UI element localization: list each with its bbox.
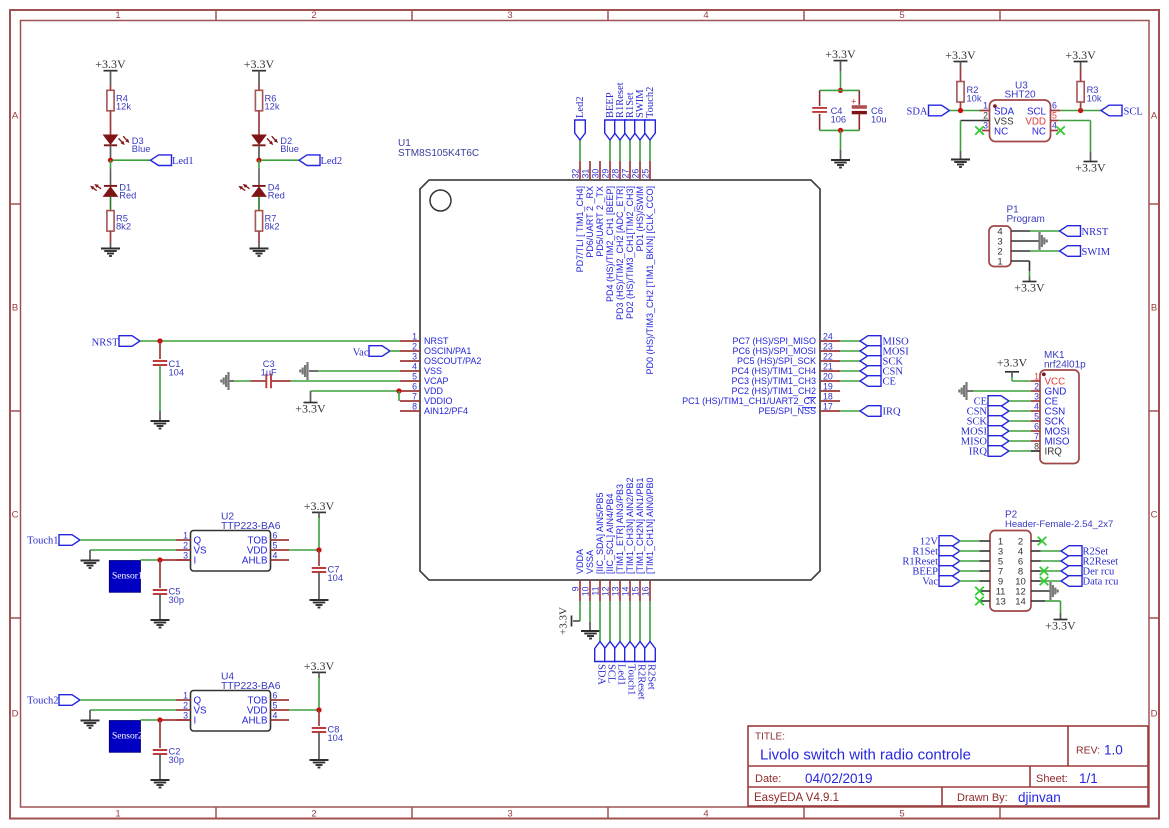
MK1 pin 5 SCK [1031, 411, 1065, 427]
wire [258, 111, 260, 135]
svg-text:13: 13 [611, 586, 621, 596]
svg-text:AHLB: AHLB [242, 715, 268, 726]
wire to Led1 flag [113, 159, 151, 161]
U1 pin 27 PD2 (HS)/TIM3_CH1[TIM2_CH3] [621, 161, 636, 319]
MK1 pin 1 VCC [1031, 371, 1065, 387]
svg-text:Header-Female-2.54_2x7: Header-Female-2.54_2x7 [1005, 519, 1113, 530]
ground (C1) [151, 411, 170, 429]
P1 pin 3 wire to ground [1011, 240, 1040, 242]
U1 pin 3 OSCOUT/PA2 [400, 352, 481, 367]
wire (U3 VDD to +3.3V) [1058, 121, 1091, 162]
svg-text:STM8S105K4T6C: STM8S105K4T6C [398, 148, 479, 159]
svg-text:+3.3V: +3.3V [1065, 48, 1096, 62]
svg-text:PC4 (HS)/TIM1_CH4: PC4 (HS)/TIM1_CH4 [731, 366, 816, 376]
net flag Data rcu (P2) [1061, 576, 1119, 588]
P2 pin 8 wire [1031, 570, 1061, 572]
U1 pin 1 NRST [400, 332, 449, 347]
svg-text:2: 2 [311, 809, 316, 820]
U1 pin 31 PD6/UART 2 _RX [581, 161, 596, 258]
svg-text:Red: Red [119, 190, 136, 200]
svg-text:5: 5 [273, 540, 278, 550]
svg-text:VSSA: VSSA [585, 550, 595, 574]
svg-text:SHT20: SHT20 [1005, 90, 1037, 101]
wire (U4 VS to ground) [90, 710, 176, 720]
wire [230, 380, 251, 382]
svg-text:[TIM1_CH1N] AIN0/PB0: [TIM1_CH1N] AIN0/PB0 [645, 477, 655, 574]
power +3.3V (R2) [945, 48, 976, 67]
U1 pin 15 [TIM1_CH2N] AIN1/PB1 [631, 477, 646, 601]
svg-text:4: 4 [703, 10, 708, 21]
wire [840, 71, 842, 90]
wire NRST [140, 340, 400, 342]
node C4/C6 top rail [838, 88, 843, 93]
sensor pad Sensor2 [109, 721, 142, 753]
wire [1009, 450, 1031, 452]
svg-text:2: 2 [183, 700, 188, 710]
wire (U1 pin 6 VDD to +3.3V) [311, 390, 401, 392]
svg-text:104: 104 [328, 733, 344, 743]
svg-text:+3.3V: +3.3V [244, 57, 275, 71]
wire [258, 231, 260, 243]
power +3.3V (R3) [1065, 48, 1096, 82]
svg-text:SCL: SCL [1124, 106, 1143, 117]
svg-text:31: 31 [581, 169, 591, 179]
power +3.3V (P2) [1054, 619, 1068, 621]
sensor pad Sensor1 [109, 561, 142, 593]
svg-text:Touch2: Touch2 [27, 696, 58, 707]
U1 pin 18 PC1 (HS)/TIM1_CH1/UART2_CK [682, 392, 840, 407]
U1 pin 4 VSS [400, 362, 442, 377]
power +3.3V (U3 VDD, below) [1084, 161, 1098, 163]
svg-text:AHLB: AHLB [242, 555, 268, 566]
net flag SDA [595, 642, 607, 686]
U4 pin 3 I [176, 710, 196, 726]
svg-text:Blue: Blue [132, 144, 151, 154]
U1 pin 22 PC5 (HS)/SPI_SCK [737, 352, 840, 367]
svg-text:21: 21 [823, 362, 833, 372]
svg-text:PD5/UART 2 _TX: PD5/UART 2 _TX [595, 186, 605, 257]
U1 pin 23 PC6 (HS)/SPI_MOSI [732, 342, 840, 357]
svg-text:1.0: 1.0 [1104, 743, 1123, 758]
wire (U3 VSS to ground) [961, 121, 982, 152]
wire [1009, 410, 1031, 412]
wire (LED column 1 top lead) [110, 85, 112, 90]
node Led1 junction [108, 158, 113, 163]
wire (U1 bottom pin to R2Set flag) [649, 601, 651, 642]
node VDD junction [396, 388, 401, 393]
svg-text:106: 106 [831, 114, 847, 124]
wire [318, 572, 320, 600]
U3 pin 5 VDD [1025, 111, 1058, 128]
svg-text:+: + [851, 96, 856, 106]
svg-text:1: 1 [997, 257, 1002, 268]
svg-text:NRST: NRST [92, 337, 119, 348]
U1 pin 12 [IIC_SCL] AIN4/PB4 [601, 493, 616, 601]
wire SDA [950, 110, 980, 112]
svg-text:+3.3V: +3.3V [558, 607, 570, 635]
svg-text:I: I [194, 555, 197, 566]
LED D1 Red [90, 182, 136, 200]
svg-text:104: 104 [328, 573, 344, 583]
power +3.3V (C4/C6) [825, 47, 856, 71]
P2 pin 7 wire [959, 570, 990, 572]
wire [110, 145, 112, 160]
MK1 pin 8 IRQ [1031, 441, 1062, 457]
svg-text:Program: Program [1007, 214, 1045, 225]
wire [1009, 440, 1031, 442]
U1 pin 26 PD1 (HS)/SWIM [631, 161, 646, 252]
ground (P2 pin 12, arrow style) [1049, 582, 1051, 600]
svg-text:6: 6 [273, 530, 278, 540]
svg-text:+3.3V: +3.3V [825, 47, 856, 61]
svg-text:VDD: VDD [424, 386, 444, 396]
svg-text:8k2: 8k2 [265, 221, 280, 231]
svg-text:Touch2: Touch2 [645, 87, 656, 118]
svg-text:30p: 30p [169, 595, 185, 605]
svg-text:+3.3V: +3.3V [304, 499, 335, 513]
U1 pin 21 PC4 (HS)/TIM1_CH4 [731, 362, 840, 377]
net flag R1Set (P2) [912, 546, 960, 558]
svg-text:8: 8 [1034, 441, 1039, 451]
power +3.3V (U1 pin 9, rotated) [558, 607, 572, 635]
U3 pin 6 SCL [1027, 101, 1060, 118]
capacitor C7 104 [312, 550, 343, 583]
wire (U1 pin 23 to MOSI flag) [840, 350, 860, 352]
no-connect X (P2 pin 11) [975, 587, 984, 596]
U1 pin 11 [IIC_SDA] AIN5/PB5 [591, 492, 606, 601]
net flag SCL [1101, 105, 1143, 117]
wire (U1 top pin to Led2 flag) [579, 140, 581, 161]
wire to Led2 flag [261, 159, 299, 161]
U1 pin 10 VSSA [581, 550, 596, 601]
svg-text:A: A [1151, 110, 1158, 121]
net flag Led1 [615, 642, 627, 686]
svg-text:5: 5 [1052, 111, 1057, 121]
net flag NRST (P1) [1060, 226, 1109, 238]
svg-text:22: 22 [823, 352, 833, 362]
wire (U1 bottom pin to Led1 flag) [619, 601, 621, 642]
svg-text:Led1: Led1 [616, 664, 627, 686]
U1 pin 7 VDDIO [400, 392, 453, 407]
svg-text:2: 2 [1034, 381, 1039, 391]
node Led2 junction [256, 158, 261, 163]
net flag CE (MK1) [974, 396, 1009, 408]
op-amp U1 STM8S105K4T6C MCU body [398, 138, 820, 580]
net flag R2Reset [635, 642, 647, 700]
U1 pin 17 NSS overline [802, 407, 816, 409]
svg-text:+3.3V: +3.3V [1045, 619, 1076, 633]
wire [110, 231, 112, 243]
svg-text:27: 27 [621, 169, 631, 179]
U1 pin 6 VDD [400, 382, 444, 397]
svg-text:10: 10 [581, 586, 591, 596]
wire (U1 pin 22 to SCK flag) [840, 360, 860, 362]
svg-text:Data rcu: Data rcu [1083, 577, 1120, 588]
wire (U1 bottom pin to R2Reset flag) [639, 601, 641, 642]
wire [110, 196, 112, 210]
capacitor C1 104 [153, 341, 184, 378]
net flag MISO [860, 336, 909, 348]
svg-text:SDA: SDA [906, 106, 927, 117]
svg-text:+3.3V: +3.3V [304, 659, 335, 673]
svg-text:I: I [194, 715, 197, 726]
svg-text:Led2: Led2 [575, 96, 586, 118]
wire [840, 130, 842, 150]
U3 pin 2 VSS [982, 111, 1015, 128]
wire (U1 bottom pin to Touch1 flag) [629, 601, 631, 642]
net flag R2Set [645, 642, 657, 690]
svg-text:Led2: Led2 [321, 156, 343, 167]
svg-text:8k2: 8k2 [116, 221, 131, 231]
MK1 pin 6 MOSI [1031, 421, 1070, 437]
svg-text:11: 11 [591, 586, 601, 595]
U3 pin 3 NC [982, 121, 1008, 138]
wire [258, 145, 260, 160]
svg-text:9: 9 [571, 586, 581, 591]
wire (bottom rail) [820, 129, 860, 131]
svg-text:[TIM1_CH3N] AIN2/PB2: [TIM1_CH3N] AIN2/PB2 [625, 477, 635, 574]
chip U3 SHT20 [990, 81, 1051, 142]
svg-text:[IIC_SCL] AIN4/PB4: [IIC_SCL] AIN4/PB4 [605, 493, 615, 574]
net flag R1Reset (P2) [902, 556, 960, 568]
svg-text:Blue: Blue [280, 144, 299, 154]
wire (U1 top pin to SWIM flag) [639, 140, 641, 161]
svg-text:23: 23 [823, 342, 833, 352]
capacitor C5 30p [153, 560, 184, 605]
capacitor C6 10u (polarized) [851, 90, 886, 130]
svg-text:4: 4 [273, 550, 278, 560]
chip U2 TTP223-BA6 [191, 512, 281, 572]
node U4 pin3 junction [157, 717, 162, 722]
svg-text:17: 17 [823, 402, 833, 412]
svg-text:6: 6 [1034, 421, 1039, 431]
U4 pin 4 AHLB [242, 710, 289, 726]
svg-text:2: 2 [311, 10, 316, 21]
resistor R2 10k [957, 67, 982, 111]
node U2 VDD junction [316, 547, 321, 552]
svg-text:IRQ: IRQ [969, 447, 988, 458]
svg-text:10k: 10k [967, 93, 982, 103]
connector P1 Program [989, 205, 1045, 268]
ground (P1 pin 3, arrow style) [1038, 232, 1040, 250]
svg-text:26: 26 [631, 169, 641, 179]
net flag SCL [605, 642, 617, 684]
svg-text:TITLE:: TITLE: [755, 732, 785, 743]
svg-text:AIN12/PF4: AIN12/PF4 [424, 406, 468, 416]
svg-text:PD7/TLI [ TIM1_CH4]: PD7/TLI [ TIM1_CH4] [575, 186, 585, 272]
svg-text:SCL: SCL [606, 664, 617, 683]
svg-text:Sheet:: Sheet: [1036, 773, 1068, 785]
svg-text:PC2 (HS)/TIM1_CH2: PC2 (HS)/TIM1_CH2 [731, 386, 816, 396]
svg-text:5: 5 [899, 10, 904, 21]
svg-text:16: 16 [641, 586, 651, 596]
svg-text:+3.3V: +3.3V [295, 402, 326, 416]
svg-text:18: 18 [823, 392, 833, 402]
svg-text:3: 3 [507, 10, 512, 21]
no-connect X (P2 pin 2) [1038, 537, 1047, 546]
P2 pin 12 wire to ground [1031, 590, 1051, 592]
wire [140, 719, 190, 721]
U3 pin 4 NC [1032, 121, 1058, 138]
svg-text:PC7 (HS)/SPI_MISO: PC7 (HS)/SPI_MISO [732, 336, 816, 346]
svg-text:1uF: 1uF [261, 368, 277, 378]
net flag MOSI [860, 346, 909, 358]
net flag SDA [906, 105, 949, 117]
chip U4 TTP223-BA6 [191, 672, 281, 732]
svg-text:PC6 (HS)/SPI_MOSI: PC6 (HS)/SPI_MOSI [732, 346, 816, 356]
ground (LED column 1) [101, 243, 120, 256]
svg-text:B: B [1151, 302, 1157, 313]
svg-text:3: 3 [412, 352, 417, 362]
P2 pin 11 stub [980, 590, 991, 592]
no-connect X (P2 pin 13) [975, 597, 984, 606]
LED D2 Blue [252, 135, 299, 154]
svg-text:6: 6 [273, 690, 278, 700]
svg-text:5: 5 [273, 700, 278, 710]
svg-text:Vac: Vac [922, 577, 938, 588]
svg-text:15: 15 [631, 586, 641, 596]
svg-text:1/1: 1/1 [1079, 771, 1098, 786]
U1 pin 8 AIN12/PF4 [400, 402, 468, 417]
svg-text:NC: NC [1032, 127, 1046, 138]
wire [140, 559, 190, 561]
svg-text:1: 1 [183, 690, 188, 700]
svg-text:djinvan: djinvan [1018, 790, 1061, 805]
ground (LED column 2) [250, 243, 269, 256]
P1 pin 1 wire to +3.3V [1011, 261, 1030, 282]
resistor R6 12k [255, 90, 279, 111]
ground (U2 VS) [81, 560, 100, 562]
net flag Led1 [151, 155, 194, 167]
wire [159, 754, 161, 780]
svg-text:C: C [1151, 509, 1158, 520]
wire (U1 pin 24 to MISO flag) [840, 340, 860, 342]
wire [80, 699, 176, 701]
node U4 VDD junction [316, 707, 321, 712]
wire SCL [1060, 110, 1101, 112]
net flag BEEP (P2) [912, 566, 960, 578]
U4 pin 6 TOB [248, 690, 289, 706]
P2 pin 4 wire [1031, 550, 1061, 552]
svg-text:32: 32 [571, 169, 581, 179]
svg-text:10u: 10u [871, 114, 887, 124]
svg-text:30p: 30p [169, 755, 185, 765]
svg-text:EasyEDA V4.9.1: EasyEDA V4.9.1 [754, 792, 839, 804]
svg-text:A: A [12, 110, 19, 121]
resistor R5 8k2 [107, 211, 131, 232]
ground (C5) [151, 619, 170, 621]
net flag Led2 [299, 155, 342, 167]
U1 pin 16 [TIM1_CH1N] AIN0/PB0 [641, 477, 656, 601]
capacitor C2 30p [153, 720, 184, 765]
svg-text:VDDA: VDDA [575, 549, 585, 574]
U4 pin 2 VS [176, 700, 207, 716]
P2 pin 2 stub [1031, 540, 1041, 542]
no-connect X (P2 pin 8) [1040, 567, 1049, 576]
svg-text:8: 8 [412, 402, 417, 412]
MK1 pin 4 CSN [1031, 401, 1065, 417]
connector MK1 nrf24l01p [1040, 350, 1086, 464]
LED D3 Blue [104, 135, 151, 154]
LED D4 Red [239, 182, 285, 200]
svg-text:12k: 12k [265, 101, 280, 111]
wire [258, 196, 260, 210]
svg-text:[IIC_SDA] AIN5/PB5: [IIC_SDA] AIN5/PB5 [595, 492, 605, 574]
svg-text:NRST: NRST [424, 336, 449, 346]
U1 pin 25 PD0 (HS)/TIM3_CH2 [TIM1_BKIN] [CLK_CCO] [641, 161, 656, 375]
svg-text:1: 1 [115, 10, 120, 21]
svg-text:7: 7 [412, 392, 417, 402]
P2 pin 3 wire [959, 550, 990, 552]
svg-text:VCAP: VCAP [424, 376, 449, 386]
wire (U1 pin 21 to CSN flag) [840, 370, 860, 372]
net flag MOSI (MK1) [961, 426, 1009, 438]
svg-text:B: B [12, 302, 18, 313]
svg-text:+3.3V: +3.3V [95, 57, 126, 71]
svg-text:PC3 (HS)/TIM1_CH3: PC3 (HS)/TIM1_CH3 [731, 376, 816, 386]
svg-text:Touch1: Touch1 [626, 664, 637, 695]
svg-text:REV:: REV: [1076, 745, 1100, 757]
power +3.3V (U2) [304, 499, 335, 518]
svg-text:1: 1 [1034, 371, 1039, 381]
power +3.3V (P1) [1023, 281, 1037, 283]
P1 pin 2 wire to SWIM [1011, 250, 1060, 252]
ground (C8) [310, 759, 329, 761]
svg-text:28: 28 [611, 169, 621, 179]
svg-text:4: 4 [1052, 121, 1057, 131]
power +3.3V (U1 pin 6) [295, 391, 326, 416]
wire (U1 pin 9 VDDA to +3.3V) [573, 601, 580, 621]
wire (U1 pin 10 VSSA to ground) [589, 601, 591, 622]
U1 pin 5 VCAP [400, 372, 449, 387]
wire [289, 518, 319, 550]
no-connect X (U3 pin 4) [1056, 126, 1065, 135]
svg-text:PD6/UART 2 _RX: PD6/UART 2 _RX [585, 186, 595, 258]
svg-text:20: 20 [823, 372, 833, 382]
net flag Touch1 [27, 535, 80, 547]
P2 pin 9 wire [959, 580, 990, 582]
svg-text:4: 4 [412, 362, 417, 372]
U4 pin 1 Q [176, 690, 202, 706]
net flag IRQ [860, 406, 901, 418]
svg-text:10k: 10k [1087, 93, 1102, 103]
wire [258, 160, 260, 168]
svg-text:24: 24 [823, 332, 833, 342]
ground (C2) [151, 779, 170, 781]
svg-text:14: 14 [1015, 597, 1026, 608]
svg-text:PD0 (HS)/TIM3_CH2 [TIM1_BKIN]: PD0 (HS)/TIM3_CH2 [TIM1_BKIN] [CLK_CCO] [645, 186, 655, 375]
node C4/C6 bottom rail [838, 128, 843, 133]
svg-text:PD3 (HS)/TIM2_CH2 [ADC_ETR]: PD3 (HS)/TIM2_CH2 [ADC_ETR] [615, 186, 625, 320]
svg-text:NRST: NRST [1082, 227, 1109, 238]
svg-text:IRQ: IRQ [1045, 447, 1063, 458]
svg-text:CE: CE [883, 377, 896, 388]
svg-text:D: D [12, 708, 19, 719]
svg-text:VDDIO: VDDIO [424, 396, 453, 406]
net flag Vac [353, 346, 390, 359]
svg-text:4: 4 [703, 809, 708, 820]
wire Vac [390, 350, 400, 352]
MK1 pin 7 MISO [1031, 431, 1070, 447]
resistor R7 8k2 [255, 211, 279, 232]
U1 pin 14 [TIM1_CH3N] AIN2/PB2 [621, 477, 636, 601]
U1 pin 19 PC2 (HS)/TIM1_CH2 [731, 382, 840, 397]
svg-text:3: 3 [1034, 391, 1039, 401]
svg-text:1: 1 [983, 101, 988, 111]
svg-text:12k: 12k [116, 101, 131, 111]
net flag Touch2 [27, 695, 80, 707]
svg-text:6: 6 [1052, 101, 1057, 111]
